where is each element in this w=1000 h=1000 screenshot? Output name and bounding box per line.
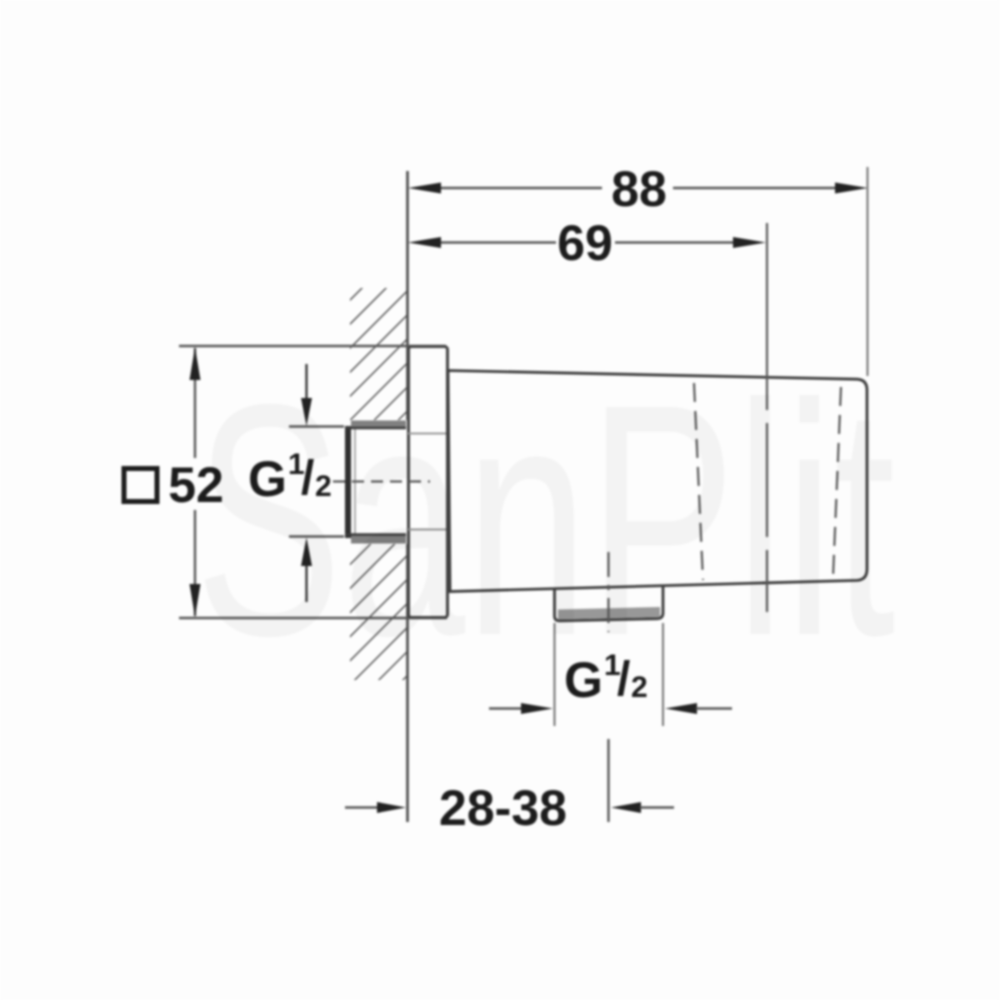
outlet centre extension below [607, 739, 609, 822]
flange escutcheon [409, 347, 448, 618]
inlet centre dashed line [333, 480, 430, 482]
outlet port [555, 586, 664, 621]
outlet extension line left [553, 623, 555, 726]
inlet top arrow shaft [305, 364, 307, 400]
thread top gray band [351, 421, 406, 429]
outlet dimension right arrowhead [665, 703, 697, 714]
hidden dashed line 1 [694, 383, 703, 580]
dimension 28-38 left arrowhead [377, 802, 406, 813]
dimension 52 bottom arrowhead [190, 584, 201, 617]
centre line through body (69 extension) [766, 223, 768, 612]
outlet gray band [558, 607, 660, 620]
dimension 28-38 left arrow line [345, 806, 382, 808]
dimension 28-38 right arrow line [640, 806, 674, 808]
dimension 69 line left segment [438, 241, 556, 243]
outlet dimension left arrowhead [521, 703, 553, 714]
flange hole top line [408, 433, 446, 435]
hidden dashed line 2 [833, 387, 841, 578]
dimension 52 top extension line [179, 345, 446, 347]
dimension 69 left arrowhead [408, 237, 441, 248]
inlet thread left edge [345, 426, 351, 538]
dimension 88 right arrowhead [835, 183, 868, 194]
dimension 88 line right segment [673, 187, 838, 189]
svg-text:69: 69 [557, 215, 613, 271]
dimension 28-38 right arrowhead [611, 802, 641, 813]
extension line right of 88 [866, 167, 868, 376]
svg-text:28-38: 28-38 [439, 780, 567, 836]
inlet thread bottom leader line [289, 535, 346, 537]
svg-text:SanPlit: SanPlit [195, 336, 896, 705]
flange hole bottom line [408, 529, 446, 531]
dimension 52 bottom extension line [179, 617, 447, 619]
thread clearing rectangle [344, 420, 408, 544]
dimension 88 left arrowhead [408, 183, 441, 194]
dimension 69 right arrowhead [733, 237, 766, 248]
dimension 52 line upper segment [194, 348, 196, 458]
inlet thread second edge line [354, 428, 356, 535]
thread bottom gray band [351, 536, 406, 544]
square symbol [124, 469, 157, 502]
outlet centre dash-dot line [607, 552, 609, 632]
inlet thread top leader line [289, 425, 346, 427]
inlet thread bottom edge [345, 533, 406, 536]
dimension 69 line right segment [615, 241, 736, 243]
inlet bottom arrow shaft [305, 566, 307, 602]
dimension 88 line left segment [438, 187, 602, 189]
outlet dimension left arrow line [489, 707, 524, 709]
inlet thread top edge [345, 427, 406, 430]
inlet top arrowhead [301, 398, 312, 426]
wall hatch [350, 288, 408, 680]
inlet bottom arrowhead [301, 538, 312, 567]
body of wall union [448, 371, 867, 592]
dimension 52 top arrowhead [190, 347, 201, 380]
svg-text:88: 88 [611, 161, 667, 217]
outlet extension line right [662, 623, 664, 726]
wall surface line / extension line [406, 171, 409, 822]
outlet dimension right arrow line [696, 707, 732, 709]
dimension 52 line lower segment [194, 510, 196, 616]
